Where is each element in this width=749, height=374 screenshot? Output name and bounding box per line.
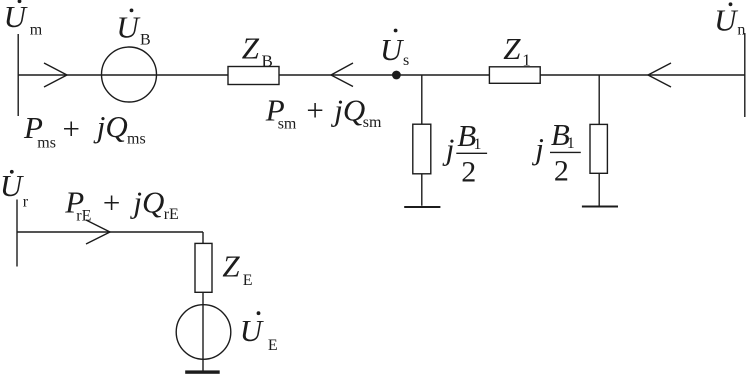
svg-text:Z: Z xyxy=(503,31,521,66)
svg-text:U: U xyxy=(116,9,141,44)
svg-text:ms: ms xyxy=(37,134,56,151)
svg-text:j: j xyxy=(442,131,455,166)
svg-text:U: U xyxy=(240,313,265,348)
svg-text:rE: rE xyxy=(76,208,91,225)
svg-text:U: U xyxy=(380,32,405,67)
svg-text:U: U xyxy=(714,3,739,38)
svg-text:U: U xyxy=(4,0,29,34)
svg-text:1: 1 xyxy=(522,51,531,70)
svg-text:+: + xyxy=(61,111,82,146)
svg-text:1: 1 xyxy=(474,136,482,153)
svg-text:s: s xyxy=(403,52,409,69)
svg-text:Z: Z xyxy=(222,249,240,284)
svg-text:U: U xyxy=(0,168,25,203)
svg-text:n: n xyxy=(737,22,745,39)
svg-text:ms: ms xyxy=(127,131,146,148)
svg-text:1: 1 xyxy=(567,135,575,152)
svg-text:E: E xyxy=(268,337,278,354)
svg-text:m: m xyxy=(30,22,43,39)
svg-text:r: r xyxy=(23,194,29,211)
svg-text:2: 2 xyxy=(554,155,569,188)
svg-text:sm: sm xyxy=(363,114,382,131)
svg-text:jQ: jQ xyxy=(93,109,128,144)
svg-text:2: 2 xyxy=(461,155,476,188)
svg-text:j: j xyxy=(531,131,544,166)
svg-text:Z: Z xyxy=(242,31,260,66)
svg-text:B: B xyxy=(262,52,273,71)
svg-text:rE: rE xyxy=(164,206,179,223)
svg-text:B: B xyxy=(140,32,151,49)
svg-text:jQ: jQ xyxy=(330,92,365,127)
svg-text:+: + xyxy=(304,92,325,127)
svg-text:sm: sm xyxy=(278,115,297,132)
svg-text:jQ: jQ xyxy=(129,184,164,219)
svg-text:+: + xyxy=(101,185,122,220)
svg-text:E: E xyxy=(243,272,253,289)
